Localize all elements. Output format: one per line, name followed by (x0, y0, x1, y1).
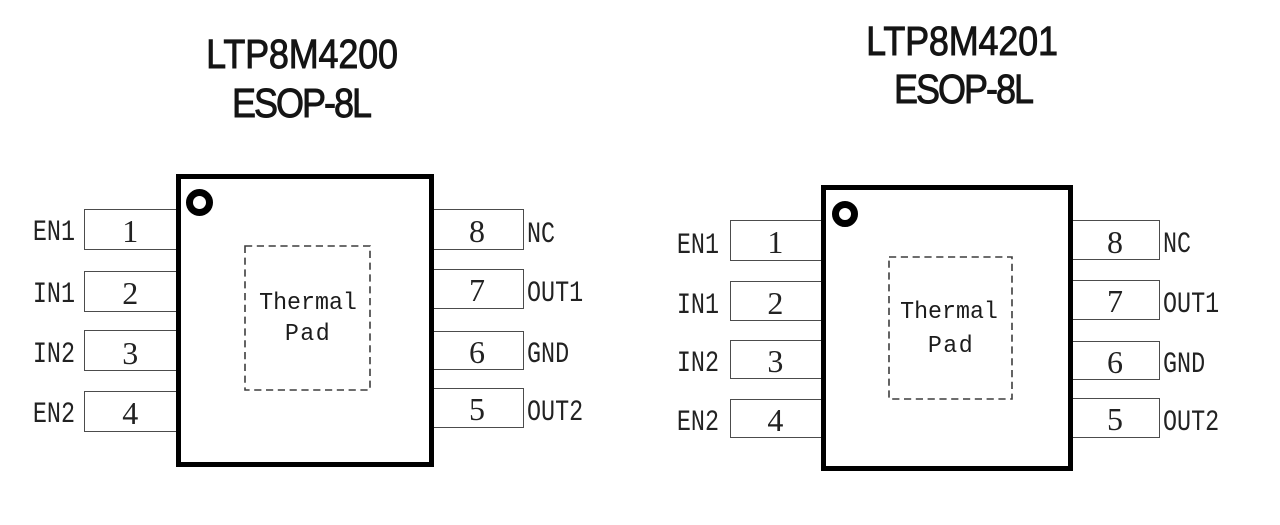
label GND (1163, 350, 1205, 380)
IC body LTP8M4200 (176, 174, 434, 467)
label OUT1 (527, 279, 583, 309)
pin-1 indicator circle (186, 189, 213, 216)
label IN1 (33, 280, 75, 310)
title LTP8M4200 (206, 34, 398, 75)
label IN2 (33, 340, 75, 370)
pin number 7 (430, 274, 524, 306)
pin 8 box (430, 209, 524, 250)
pin number 8 (1070, 226, 1160, 258)
pin 2 box (84, 271, 179, 312)
pin number 6 (430, 336, 524, 368)
pin number 4 (84, 397, 178, 429)
pin number 1 (730, 226, 821, 258)
label OUT1 (1163, 290, 1219, 320)
label IN1 (677, 291, 719, 321)
label NC (527, 220, 555, 250)
pin number 3 (84, 337, 178, 369)
pin number 8 (430, 215, 524, 247)
pin number 2 (84, 277, 178, 309)
IC body LTP8M4201 (821, 185, 1073, 471)
pin 4 box (84, 391, 179, 432)
pin 7 box (1070, 280, 1160, 320)
pin number 7 (1070, 285, 1160, 317)
label OUT2 (527, 398, 583, 428)
title LTP8M4201 (866, 21, 1058, 62)
pin number 3 (730, 345, 821, 377)
pin 5 box (430, 388, 524, 428)
pin 8 box (1070, 220, 1160, 260)
label NC (1163, 230, 1191, 260)
thermal pad dashed outline (244, 245, 371, 391)
label OUT2 (1163, 408, 1219, 438)
pin number 5 (1070, 403, 1160, 435)
label EN1 (33, 218, 75, 248)
thermal pad text (900, 301, 998, 325)
pin 3 box (84, 330, 179, 371)
pin 1 box (730, 220, 822, 261)
pin number 2 (730, 287, 821, 319)
title ESOP-8L (232, 83, 370, 124)
pin 5 box (1070, 398, 1160, 438)
label EN2 (33, 400, 75, 430)
pin 7 box (430, 269, 524, 309)
pin 1 box (84, 209, 179, 250)
pin number 5 (430, 393, 524, 425)
pin number 4 (730, 404, 821, 436)
label GND (527, 340, 569, 370)
pin number 6 (1070, 346, 1160, 378)
label EN2 (677, 408, 719, 438)
pin-1 indicator circle (832, 201, 858, 227)
label EN1 (677, 231, 719, 261)
pin 6 box (430, 331, 524, 371)
title ESOP-8L (894, 69, 1032, 110)
pin 2 box (730, 281, 822, 321)
pin 4 box (730, 399, 822, 438)
pin number 1 (84, 215, 178, 247)
pin 6 box (1070, 341, 1160, 381)
thermal pad dashed outline (888, 256, 1013, 400)
thermal pad text (259, 292, 357, 316)
label IN2 (677, 349, 719, 379)
pin 3 box (730, 340, 822, 380)
